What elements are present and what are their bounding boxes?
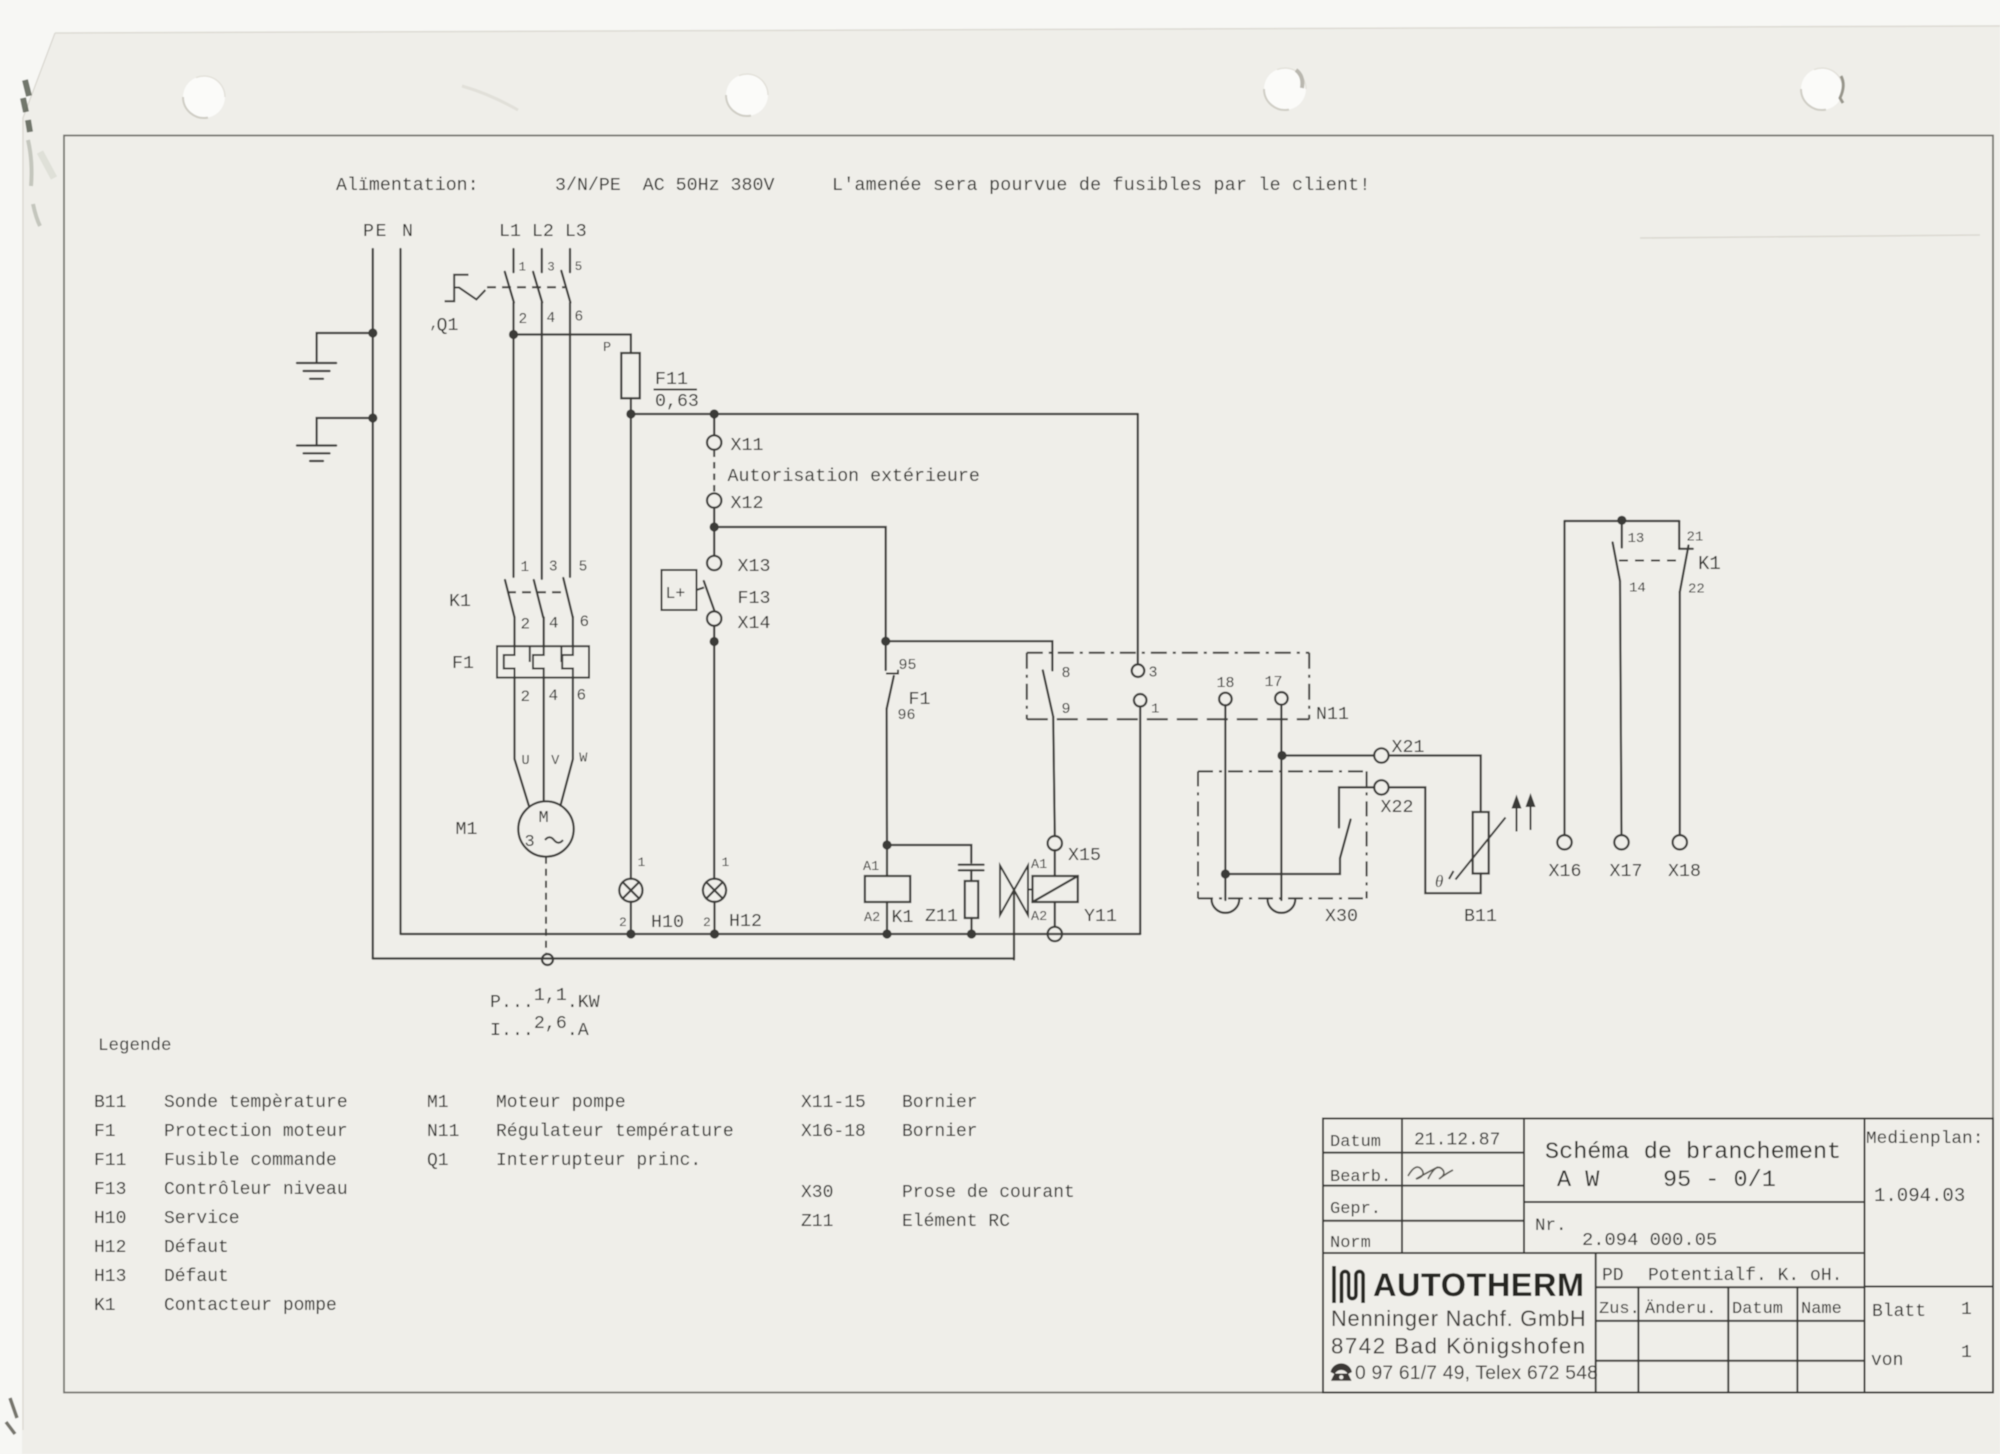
terminal X14 <box>707 611 721 625</box>
overload relay F1 thermal elements <box>504 646 573 677</box>
svg-text:Legende: Legende <box>98 1036 172 1056</box>
svg-text:X18: X18 <box>1668 862 1701 882</box>
svg-text:X14: X14 <box>738 614 771 634</box>
wire X11-X12 (dashed) <box>713 451 715 493</box>
svg-text:F11: F11 <box>655 370 688 390</box>
svg-text:17: 17 <box>1265 674 1283 691</box>
svg-text:A2: A2 <box>864 911 880 926</box>
contactor K1 linkage (dashed) <box>507 591 566 593</box>
svg-text:L+: L+ <box>666 584 686 603</box>
svg-text:3/N/PE AC 50Hz 380V: 3/N/PE AC 50Hz 380V <box>555 176 774 196</box>
fuse F11 body <box>621 353 640 398</box>
overload relay F1 box <box>497 646 589 677</box>
svg-text:K1: K1 <box>892 908 914 928</box>
svg-text:Nr.: Nr. <box>1535 1216 1567 1236</box>
sensor B11 resistor body <box>1473 812 1489 874</box>
wire X14 down to junction <box>713 626 715 642</box>
ground 1 branch wire <box>317 333 373 362</box>
motor M1 earth tail (dashed) <box>545 857 547 953</box>
switch Q1 pole L1 <box>505 249 514 577</box>
svg-text:M: M <box>539 809 549 828</box>
svg-text:L'amenée sera pourvue de fusib: L'amenée sera pourvue de fusibles par le… <box>832 176 1371 196</box>
wire X16 drop <box>1563 521 1565 835</box>
svg-text:X12: X12 <box>731 494 764 514</box>
contactor K1 pole 2 <box>534 580 544 646</box>
svg-text:Z11: Z11 <box>925 907 958 927</box>
terminal N11 pin 1 <box>1134 694 1147 707</box>
svg-text:Medienplan:: Medienplan: <box>1866 1129 1983 1149</box>
valve Y11 body <box>1000 866 1033 916</box>
svg-text:1: 1 <box>521 560 530 576</box>
svg-text:A1: A1 <box>1031 858 1047 873</box>
svg-text:2: 2 <box>521 688 531 706</box>
wire X14 junction down to lamp H12 <box>713 642 715 879</box>
wire H12 to return bus <box>713 902 715 934</box>
svg-text:AUTOTHERM: AUTOTHERM <box>1373 1267 1585 1303</box>
svg-text:Potentialf. K. oH.: Potentialf. K. oH. <box>1648 1266 1842 1286</box>
sensor B11 diagonal <box>1456 818 1506 880</box>
svg-text:L1 L2 L3: L1 L2 L3 <box>499 222 587 242</box>
svg-text:2: 2 <box>619 915 627 930</box>
lamp H10 <box>619 879 642 902</box>
svg-text:Name: Name <box>1801 1300 1842 1319</box>
svg-text:F13: F13 <box>94 1180 126 1200</box>
svg-text:2: 2 <box>521 616 531 634</box>
svg-text:1: 1 <box>1151 702 1159 718</box>
lamp H12 <box>703 879 726 902</box>
contactor K1 pole 3 <box>563 578 573 646</box>
wire N11 pin 1 to return bus <box>1139 707 1141 934</box>
switch Q1 handle <box>445 275 486 301</box>
svg-text:H10: H10 <box>651 913 684 933</box>
svg-text:3: 3 <box>1149 665 1158 682</box>
svg-text:Bornier: Bornier <box>902 1122 978 1142</box>
svg-text:Datum: Datum <box>1732 1300 1783 1319</box>
svg-text:96: 96 <box>898 707 916 724</box>
contact F1 95/96 blade <box>887 676 894 709</box>
svg-text:M1: M1 <box>456 820 478 840</box>
node on pin18 wire <box>1221 869 1230 878</box>
motor M1 earth terminal circle <box>542 954 553 965</box>
socket X30 enclosure (dash-dot) <box>1198 771 1367 898</box>
svg-text:Z11: Z11 <box>801 1212 833 1232</box>
svg-text:Schéma de branchement: Schéma de branchement <box>1545 1139 1841 1166</box>
title block frame <box>1323 1119 1993 1393</box>
svg-text:Nenninger Nachf. GmbH: Nenninger Nachf. GmbH <box>1331 1306 1586 1331</box>
wire coil A2 to return bus <box>886 902 888 934</box>
svg-text:B11: B11 <box>94 1093 126 1113</box>
svg-text:Zus.: Zus. <box>1599 1300 1640 1319</box>
wire resistor to return bus <box>970 918 972 934</box>
wire junction down to 95 contact <box>885 641 887 670</box>
svg-text:X11: X11 <box>731 436 764 456</box>
node pin17-X21 junction <box>1277 751 1286 760</box>
svg-text:von: von <box>1871 1351 1903 1371</box>
motor M1 leads U V W <box>515 678 573 806</box>
wire junction down to X13 <box>713 527 715 556</box>
wire X21 to sensor B11 top <box>1389 756 1481 813</box>
wire X15 to coil Y11 <box>1054 850 1056 876</box>
svg-text:K1: K1 <box>1698 553 1721 575</box>
svg-text:18: 18 <box>1217 675 1235 692</box>
wire X12 to junction <box>713 508 715 527</box>
svg-text:4: 4 <box>549 615 559 633</box>
svg-text:A1: A1 <box>863 860 879 875</box>
svg-text:2: 2 <box>519 312 528 328</box>
wire L1 junction to fuse column <box>514 335 631 354</box>
svg-text:H12: H12 <box>94 1238 126 1258</box>
wire junction to RC element Z11 <box>887 845 971 863</box>
terminal X21 <box>1374 748 1388 762</box>
node L1-P junction <box>509 330 518 339</box>
svg-text:N11: N11 <box>427 1122 459 1142</box>
title block grid lines <box>1323 1119 1993 1393</box>
wire H10 to return bus <box>630 902 632 934</box>
svg-text:Alïmentation:: Alïmentation: <box>336 176 479 196</box>
svg-text:1.094.03: 1.094.03 <box>1874 1185 1965 1207</box>
contact N11 8/9 blade <box>1043 670 1053 716</box>
wire N vertical <box>399 249 401 934</box>
capacitor Z11 <box>959 865 984 871</box>
svg-text:X22: X22 <box>1381 798 1414 818</box>
svg-text:5: 5 <box>575 260 583 274</box>
title block signature <box>1408 1167 1453 1179</box>
svg-text:Contacteur pompe: Contacteur pompe <box>164 1296 337 1316</box>
svg-text:Datum: Datum <box>1330 1133 1381 1152</box>
svg-text:H10: H10 <box>94 1209 126 1229</box>
svg-text:0 97 61/7 49, Telex 672 548: 0 97 61/7 49, Telex 672 548 <box>1355 1363 1598 1384</box>
motor M1 circle <box>518 801 573 856</box>
svg-text:Elément RC: Elément RC <box>902 1212 1010 1232</box>
svg-text:X30: X30 <box>1325 907 1358 927</box>
svg-text:W: W <box>579 752 588 767</box>
ground 1 symbol <box>297 363 336 379</box>
node X12 junction <box>710 522 719 531</box>
svg-text:Änderu.: Änderu. <box>1645 1299 1716 1319</box>
svg-text:K1: K1 <box>94 1296 116 1316</box>
svg-text:95: 95 <box>899 657 917 674</box>
svg-text:Sonde tempèrature: Sonde tempèrature <box>164 1093 348 1113</box>
wire junction to F1 aux column <box>714 527 886 641</box>
fuse F11 lower lead <box>630 398 632 414</box>
float switch F13 L+ box <box>662 570 697 610</box>
svg-text:X16: X16 <box>1549 862 1582 882</box>
resistor Z11 <box>965 881 978 918</box>
svg-text:X30: X30 <box>801 1183 833 1203</box>
coil K1 body <box>865 876 910 902</box>
svg-text:PE: PE <box>363 222 388 242</box>
contact F1 95/96 anchor <box>886 670 898 674</box>
svg-text:H13: H13 <box>94 1267 126 1287</box>
svg-text:21.12.87: 21.12.87 <box>1414 1131 1500 1151</box>
svg-text:3: 3 <box>549 560 558 576</box>
svg-text:Contrôleur niveau: Contrôleur niveau <box>164 1180 348 1200</box>
svg-text:M1: M1 <box>427 1093 449 1113</box>
ground 2 symbol <box>297 446 336 462</box>
switch Q1 pole L3 <box>561 249 570 577</box>
svg-text:Gepr.: Gepr. <box>1330 1200 1381 1219</box>
svg-text:F1: F1 <box>94 1122 116 1142</box>
svg-text:0,63: 0,63 <box>655 392 699 412</box>
svg-text:Moteur pompe: Moteur pompe <box>496 1093 626 1113</box>
svg-text:8: 8 <box>1062 665 1071 682</box>
svg-text:Régulateur température: Régulateur température <box>496 1122 734 1142</box>
svg-text:N: N <box>402 222 413 242</box>
svg-text:A2: A2 <box>1031 910 1047 925</box>
terminal on return bus below Y11 <box>1048 927 1062 941</box>
svg-text:Défaut: Défaut <box>164 1267 229 1287</box>
svg-text:A W: A W <box>1557 1167 1600 1194</box>
switch Q1 linkage (dashed) <box>487 286 565 288</box>
contact K1 21/22 <box>1679 521 1693 835</box>
svg-text:Autorisation extérieure: Autorisation extérieure <box>728 467 980 487</box>
svg-text:Y11: Y11 <box>1084 907 1117 927</box>
coil Y11 body <box>1033 876 1078 902</box>
svg-text:9: 9 <box>1062 701 1071 718</box>
wire pin 18 down to socket <box>1224 705 1226 900</box>
svg-text:X11-15: X11-15 <box>801 1093 866 1113</box>
wire PE return bus <box>373 957 1014 959</box>
phone icon <box>1331 1363 1353 1380</box>
svg-text:F13: F13 <box>738 589 771 609</box>
svg-text:N11: N11 <box>1316 705 1349 725</box>
svg-text:Blatt: Blatt <box>1872 1302 1926 1322</box>
svg-text:95 - 0/1: 95 - 0/1 <box>1663 1167 1776 1194</box>
contact K1 13/14 <box>1613 521 1622 835</box>
wire 96 down to contactor coil <box>885 709 888 845</box>
svg-text:H12: H12 <box>729 912 762 932</box>
wire F11 column down to lamp H10 <box>630 414 632 879</box>
wire X22 to X30 switch <box>1339 787 1374 827</box>
svg-text:14: 14 <box>1629 581 1646 597</box>
svg-text:3: 3 <box>547 261 555 275</box>
wire X22 to B11 bottom <box>1389 787 1481 893</box>
node aux junction <box>1617 516 1626 525</box>
wire down to N11 pin 3 <box>1137 414 1139 664</box>
sensor B11 arrows <box>1513 796 1534 832</box>
svg-text:U: U <box>522 754 530 769</box>
wire control bus from F11 to N11 pin 3 <box>631 413 1138 415</box>
wire N11 pin 9 down to X15 <box>1053 717 1055 836</box>
terminal X15 <box>1048 836 1062 850</box>
contact K1 aux linkage (dashed) <box>1619 560 1683 562</box>
node X14 junction <box>710 637 719 646</box>
svg-text:4: 4 <box>547 311 556 327</box>
svg-text:2.094 000.05: 2.094 000.05 <box>1582 1229 1717 1251</box>
svg-text:Service: Service <box>164 1209 240 1229</box>
svg-text:4: 4 <box>549 687 559 705</box>
svg-text:Q1: Q1 <box>437 316 459 336</box>
svg-text:1: 1 <box>638 855 646 870</box>
regulator N11 enclosure (dash-dot) <box>1027 653 1309 719</box>
svg-text:22: 22 <box>1688 582 1705 598</box>
terminal X18 <box>1673 835 1687 849</box>
wire control return bus (N) <box>401 933 1141 935</box>
svg-text:13: 13 <box>1628 531 1645 547</box>
svg-text:Prose de courant: Prose de courant <box>902 1183 1075 1203</box>
wire junction to X21 <box>1282 754 1374 756</box>
svg-text:2: 2 <box>703 915 711 930</box>
svg-text:Q1: Q1 <box>427 1151 449 1171</box>
svg-text:V: V <box>551 754 560 769</box>
svg-text:1: 1 <box>1961 1343 1972 1363</box>
switch Q1 pole L2 <box>533 249 542 579</box>
svg-text:Interrupteur princ.: Interrupteur princ. <box>496 1151 701 1171</box>
terminal X16 <box>1557 835 1571 849</box>
wire junction to N11 pin 8 <box>886 641 1053 670</box>
terminal N11 pin 3 <box>1132 664 1145 677</box>
wire pin 17 down to socket <box>1280 705 1282 900</box>
svg-text:Bornier: Bornier <box>902 1093 978 1113</box>
switch in X30 blade <box>1340 820 1351 859</box>
float switch F13 blade <box>704 581 715 611</box>
terminal X11 <box>707 435 721 449</box>
terminal X13 <box>707 556 721 570</box>
svg-text:Fusible commande: Fusible commande <box>164 1151 337 1171</box>
ground 2 branch wire <box>317 418 373 444</box>
svg-text:K1: K1 <box>449 592 471 612</box>
wire junction to coil A1 <box>886 845 888 876</box>
svg-text:3: 3 <box>525 833 535 852</box>
wire aux top bus <box>1565 520 1680 522</box>
svg-text:F11: F11 <box>94 1151 126 1171</box>
svg-text:21: 21 <box>1687 530 1704 546</box>
svg-text:5: 5 <box>579 560 588 576</box>
svg-text:6: 6 <box>575 310 584 326</box>
terminal X12 <box>707 493 721 507</box>
svg-text:F1: F1 <box>452 654 474 674</box>
svg-text:PD: PD <box>1602 1266 1624 1286</box>
svg-text:X16-18: X16-18 <box>801 1122 866 1142</box>
terminal X22 <box>1374 780 1388 794</box>
svg-text:1: 1 <box>722 855 730 870</box>
socket contact under pin 17 <box>1268 899 1296 913</box>
wire coil Y11 to return bus terminal <box>1054 902 1056 927</box>
socket contact under pin 18 <box>1212 899 1240 913</box>
svg-text:8742 Bad Königshofen: 8742 Bad Königshofen <box>1331 1334 1587 1359</box>
svg-text:X13: X13 <box>738 557 771 577</box>
wire bus to X11 <box>713 414 715 435</box>
svg-text:Norm: Norm <box>1330 1234 1371 1253</box>
logo AUTOTHERM symbol <box>1334 1266 1363 1303</box>
svg-text:6: 6 <box>577 687 587 705</box>
svg-text:P: P <box>603 341 611 356</box>
svg-text:X17: X17 <box>1610 862 1643 882</box>
wire X30 switch to pin18 wire <box>1225 858 1340 874</box>
wire valve stem to PE return <box>1013 891 1015 960</box>
wire PE vertical <box>372 249 374 959</box>
svg-text:Défaut: Défaut <box>164 1238 229 1258</box>
node F1 aux junction <box>881 637 890 646</box>
terminal X17 <box>1614 835 1628 849</box>
terminal N11 pin 18 <box>1219 693 1232 706</box>
node coil K1 top junction <box>882 840 891 849</box>
terminal N11 pin 17 <box>1275 692 1288 705</box>
svg-text:Protection moteur: Protection moteur <box>164 1122 348 1142</box>
svg-text:1: 1 <box>1961 1300 1972 1320</box>
wire capacitor to resistor <box>970 870 972 881</box>
svg-text:Bearb.: Bearb. <box>1330 1168 1391 1187</box>
svg-text:θ: θ <box>1435 872 1443 891</box>
svg-text:6: 6 <box>580 613 590 631</box>
svg-text:B11: B11 <box>1464 907 1497 927</box>
svg-text:1: 1 <box>519 261 527 275</box>
svg-text:X15: X15 <box>1068 846 1101 866</box>
contactor K1 pole 1 <box>505 580 515 646</box>
